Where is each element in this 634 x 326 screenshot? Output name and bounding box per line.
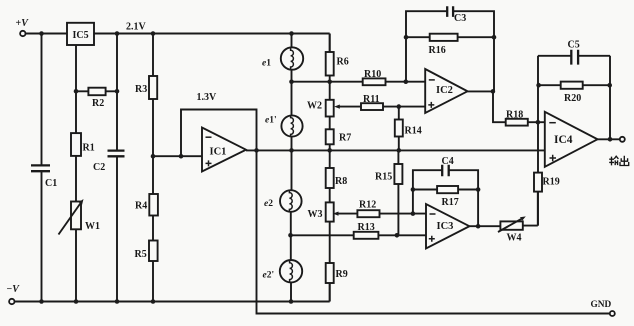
- svg-text:R14: R14: [405, 126, 422, 137]
- svg-text:IC3: IC3: [437, 221, 454, 232]
- svg-text:GND: GND: [591, 300, 612, 310]
- svg-text:R1: R1: [83, 143, 95, 154]
- svg-text:IC1: IC1: [210, 147, 227, 158]
- svg-text:R6: R6: [337, 57, 349, 68]
- svg-text:R13: R13: [358, 222, 375, 233]
- svg-text:R16: R16: [429, 45, 446, 56]
- svg-text:R19: R19: [543, 177, 560, 188]
- svg-text:−V: −V: [7, 284, 21, 295]
- svg-text:IC4: IC4: [554, 134, 573, 146]
- svg-text:R9: R9: [336, 269, 348, 280]
- svg-text:R20: R20: [564, 93, 581, 104]
- svg-text:R11: R11: [363, 94, 380, 105]
- svg-text:R5: R5: [135, 249, 147, 260]
- svg-text:C5: C5: [568, 40, 580, 51]
- svg-text:+V: +V: [16, 18, 30, 29]
- svg-text:R10: R10: [364, 69, 381, 80]
- svg-text:W2: W2: [307, 101, 322, 112]
- svg-text:e1: e1: [262, 59, 271, 69]
- svg-text:IC2: IC2: [436, 85, 453, 96]
- svg-text:C4: C4: [442, 156, 454, 167]
- svg-text:R4: R4: [135, 201, 147, 212]
- svg-text:R3: R3: [135, 84, 147, 95]
- svg-text:e1': e1': [265, 116, 277, 126]
- svg-text:R15: R15: [375, 172, 392, 183]
- svg-text:e2: e2: [264, 199, 273, 209]
- svg-text:R7: R7: [339, 133, 351, 144]
- svg-text:IC5: IC5: [73, 30, 89, 41]
- svg-text:W3: W3: [308, 209, 323, 220]
- svg-text:R12: R12: [359, 200, 376, 211]
- svg-text:C2: C2: [93, 162, 105, 173]
- svg-text:R2: R2: [92, 98, 104, 109]
- svg-text:R17: R17: [442, 197, 459, 208]
- svg-text:W1: W1: [85, 221, 100, 232]
- svg-text:C1: C1: [45, 178, 57, 189]
- svg-text:R18: R18: [506, 110, 523, 121]
- svg-text:e2': e2': [263, 271, 275, 281]
- svg-text:C3: C3: [454, 13, 466, 24]
- svg-text:2.1V: 2.1V: [126, 22, 147, 33]
- svg-text:1.3V: 1.3V: [197, 92, 218, 103]
- svg-text:W4: W4: [507, 233, 522, 244]
- svg-text:R8: R8: [335, 176, 347, 187]
